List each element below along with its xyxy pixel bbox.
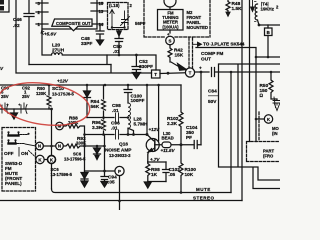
- svg-text:56K: 56K: [91, 104, 100, 110]
- trimmer to ground: [273, 97, 281, 111]
- capacitor C94: [101, 171, 108, 181]
- wire L28 to Q16: [128, 135, 154, 141]
- svg-text:1K: 1K: [151, 172, 158, 178]
- svg-text:13-29033-3: 13-29033-3: [109, 153, 131, 158]
- svg-text:.02: .02: [13, 23, 20, 29]
- svg-text:100K: 100K: [76, 141, 87, 146]
- svg-text:13: 13: [99, 9, 104, 14]
- red annotation ellipse: [0, 77, 92, 130]
- wire left vertical 1: [0, 0, 9, 12]
- resistor R42: [168, 45, 172, 62]
- svg-text:N: N: [38, 144, 41, 149]
- pin numbers: [38, 1, 104, 27]
- svg-text:T: T: [154, 72, 157, 77]
- capacitor C52: [132, 55, 141, 71]
- wire emitter rail: [148, 161, 166, 163]
- COMPOSITE OUT callout: [52, 19, 92, 31]
- svg-text:(IN: (IN: [272, 131, 278, 136]
- svg-text:C46: C46: [13, 17, 22, 23]
- svg-text:TO J.PLATE SK544: TO J.PLATE SK544: [203, 42, 245, 47]
- switch contacts: [9, 133, 37, 158]
- capacitor C46: [24, 0, 34, 65]
- capacitor C100: [124, 85, 132, 103]
- test point box T: [152, 70, 161, 78]
- svg-text:OUT: OUT: [201, 57, 211, 63]
- connector circle T: [185, 68, 194, 77]
- svg-text:STEREO: STEREO: [193, 196, 215, 201]
- svg-text:PF: PF: [186, 135, 192, 141]
- IC U1 box: [42, 0, 97, 29]
- resistor R96: [102, 118, 106, 135]
- circle N right redraw2: [36, 142, 44, 150]
- wire K2 down / mute column: [51, 109, 53, 189]
- transformer L18 dashed module: [108, 3, 129, 30]
- svg-text:100PF: 100PF: [131, 98, 145, 104]
- svg-text:C84: C84: [208, 89, 217, 95]
- svg-text:2.2K: 2.2K: [167, 121, 178, 127]
- pin 15: [91, 2, 103, 4]
- node S circle: [166, 36, 175, 45]
- wire P row: [85, 170, 116, 172]
- svg-text:Q16: Q16: [119, 142, 128, 148]
- svg-text:13-17596-5: 13-17596-5: [64, 157, 86, 162]
- svg-text:.05: .05: [108, 180, 115, 186]
- svg-text:BEAD: BEAD: [162, 136, 174, 141]
- trimmer capacitor 56PF: [121, 11, 130, 28]
- resistor R92: [63, 144, 104, 148]
- resistor R88: [63, 124, 84, 135]
- svg-text:.01: .01: [112, 108, 119, 114]
- resistor R48: [226, 0, 230, 13]
- pin 3: [36, 2, 48, 4]
- label M2 FRONT PANEL MOUNTED: [187, 10, 209, 30]
- diode SC6 no.1: [94, 146, 101, 160]
- resistor R94: [102, 85, 106, 118]
- circle N left: [36, 142, 44, 150]
- svg-text:3.3K: 3.3K: [92, 125, 103, 131]
- svg-text:COMP FM: COMP FM: [201, 51, 223, 57]
- ground C48: [97, 37, 104, 45]
- svg-text:14: 14: [99, 22, 104, 27]
- resistor R90: [47, 85, 51, 109]
- diode SC10: [84, 85, 91, 118]
- svg-text:MOUNTED: MOUNTED: [187, 25, 209, 30]
- svg-text:1.5K: 1.5K: [232, 6, 243, 12]
- wire SK544 out: [196, 48, 280, 142]
- circle K right: [47, 155, 55, 163]
- svg-text:T: T: [189, 71, 192, 76]
- ground SC6 no.2: [81, 179, 88, 187]
- circle K right redraw: [48, 156, 56, 164]
- capacitor C92: [21, 103, 27, 114]
- pin 2: [36, 11, 48, 13]
- svg-text:+: +: [167, 32, 170, 37]
- wire to T box: [136, 55, 156, 70]
- circle K left: [36, 155, 44, 163]
- svg-text:13-17SJ6-5: 13-17SJ6-5: [52, 92, 75, 97]
- svg-text:25V: 25V: [22, 94, 30, 99]
- ground C52: [132, 71, 140, 79]
- FM TUNING METER box: [158, 10, 184, 31]
- capacitor C50 lead: [118, 42, 120, 56]
- capacitor C50: [115, 30, 123, 42]
- svg-text:B: B: [267, 30, 270, 35]
- wire collector feed: [158, 85, 160, 141]
- connector circle P: [115, 166, 124, 175]
- svg-text:330PF: 330PF: [139, 64, 153, 70]
- resistor R100: [179, 145, 183, 193]
- svg-text:15K: 15K: [175, 53, 184, 59]
- svg-text:+: +: [199, 66, 202, 71]
- svg-text:+.7V: +.7V: [150, 157, 160, 162]
- meter M2 dashed enclosure: [144, 0, 210, 37]
- svg-text:56PF: 56PF: [135, 21, 146, 26]
- svg-text:25V: 25V: [1, 94, 9, 99]
- STEREO wire: [0, 200, 242, 202]
- ground rail Q16: [144, 182, 166, 189]
- pin 13: [91, 10, 103, 12]
- dashed panel boundary near COMP FM OUT: [189, 38, 193, 70]
- wire C46 lower run: [29, 55, 111, 65]
- svg-text:PANEL): PANEL): [5, 181, 22, 186]
- svg-text:.01: .01: [113, 49, 120, 55]
- bus x231 mute riser: [230, 72, 232, 193]
- svg-text:P: P: [118, 169, 121, 174]
- svg-text:+12V: +12V: [57, 79, 69, 84]
- svg-text:15: 15: [99, 1, 104, 6]
- inductor L20: [42, 29, 136, 55]
- svg-text:+5.6V: +5.6V: [44, 32, 57, 37]
- capacitor C98: [116, 113, 119, 122]
- svg-text:OFF: OFF: [4, 151, 14, 157]
- transistor Q16: [146, 139, 159, 152]
- svg-text:(L18): (L18): [109, 3, 120, 8]
- svg-text:50V: 50V: [208, 99, 217, 105]
- label SW53-D: [5, 161, 23, 186]
- svg-text:ON: ON: [21, 151, 29, 157]
- capacitor C104: [194, 141, 201, 149]
- long bus x249.5: [249, 0, 251, 142]
- wire +12V label leader: [146, 85, 148, 135]
- resistor R50: [269, 72, 277, 100]
- MUTE wire: [52, 189, 232, 193]
- svg-text:N: N: [58, 144, 61, 149]
- wire C90 C92: [0, 108, 52, 110]
- svg-text:Ω: Ω: [260, 93, 264, 99]
- svg-text:+11.5V: +11.5V: [161, 148, 176, 153]
- circle K right panel: [264, 115, 272, 123]
- arrow into T: [171, 62, 187, 70]
- svg-text:.01: .01: [111, 126, 118, 132]
- wire left vertical 2 runs to T box: [16, 0, 152, 73]
- arrow TO J PLATE: [193, 42, 202, 46]
- svg-text:33PF: 33PF: [81, 41, 92, 47]
- capacitor C102: [163, 162, 170, 182]
- capacitor C84: [212, 68, 281, 77]
- dashed box PART OF: [247, 142, 281, 162]
- circle letters: [38, 117, 271, 174]
- ferrite bead L30: [159, 144, 194, 146]
- svg-text:COMPOSITE OUT: COMPOSITE OUT: [56, 21, 91, 26]
- svg-text:10K: 10K: [185, 172, 194, 178]
- wire C96 row / base row: [85, 135, 129, 173]
- edge fragment top-left: [0, 0, 4, 11]
- capacitor C90: [2, 103, 8, 114]
- capacitor C48: [96, 24, 104, 37]
- connector box B: [265, 28, 273, 36]
- capacitor C96: [116, 130, 119, 139]
- bus y64 right: [219, 64, 281, 189]
- transformer T4: [251, 0, 255, 12]
- label FM TUNING METER: [162, 11, 179, 30]
- resistor R102: [179, 85, 183, 145]
- svg-text:(FRO: (FRO: [263, 154, 274, 159]
- pin 14: [91, 23, 103, 25]
- circle N right: [56, 142, 64, 150]
- wire T box to T circle: [160, 72, 185, 75]
- svg-text:S: S: [169, 39, 172, 44]
- diode SC6 no.2: [81, 173, 88, 180]
- dashed box MODE: [258, 112, 260, 140]
- svg-text:13-17596-5: 13-17596-5: [51, 172, 73, 177]
- wire T to C84: [195, 71, 209, 73]
- svg-text:27UH: 27UH: [52, 48, 65, 54]
- svg-text:19KHz: 19KHz: [261, 7, 275, 12]
- ground C94: [101, 181, 108, 187]
- ground C90/C92: [11, 109, 18, 119]
- svg-text:.05: .05: [169, 172, 176, 178]
- switch SW53 dashed box: [2, 128, 36, 192]
- wire T4 node to right: [259, 24, 280, 26]
- resistor R98: [146, 162, 150, 182]
- inductor L28: [128, 103, 131, 128]
- meter M2 circle: [164, 0, 176, 7]
- +12V bus: [0, 84, 181, 86]
- svg-text:MUTE: MUTE: [196, 187, 211, 192]
- svg-text:+12V: +12V: [149, 127, 161, 132]
- pin 1: [36, 23, 48, 25]
- svg-text:(100UA): (100UA): [162, 25, 179, 30]
- wire C98 row: [87, 117, 128, 119]
- long bus x242 stereo riser: [241, 0, 243, 201]
- circle M: [56, 122, 64, 130]
- svg-text:5.7MH: 5.7MH: [134, 122, 149, 128]
- svg-text:120K: 120K: [36, 91, 47, 96]
- wire C104 to comp fm node: [200, 72, 202, 145]
